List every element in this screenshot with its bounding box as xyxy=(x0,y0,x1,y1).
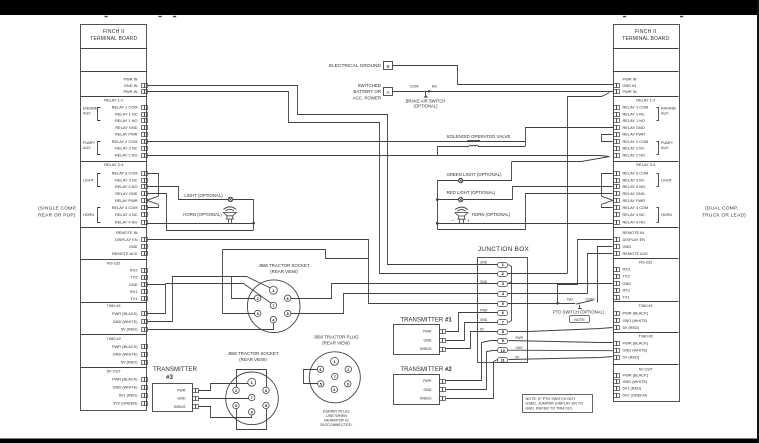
svg-text:REAR OR PUP): REAR OR PUP) xyxy=(38,213,76,219)
svg-text:LIGHT: LIGHT xyxy=(83,178,95,182)
svg-text:RX1: RX1 xyxy=(130,289,138,294)
svg-text:DISPLAY EN: DISPLAY EN xyxy=(115,237,138,242)
svg-text:RELAY 1 NO: RELAY 1 NO xyxy=(115,118,138,123)
svg-text:PWR (BLACK): PWR (BLACK) xyxy=(112,344,138,349)
svg-text:T080 #1: T080 #1 xyxy=(639,303,653,308)
svg-text:RELAY 3 NC: RELAY 3 NC xyxy=(623,177,646,182)
svg-text:GND (WHITE): GND (WHITE) xyxy=(113,319,139,324)
svg-text:GND. REFER TO TRM 010.: GND. REFER TO TRM 010. xyxy=(526,406,573,410)
svg-text:6: 6 xyxy=(287,297,289,301)
svg-text:#3: #3 xyxy=(166,374,173,381)
svg-text:ELECTRICAL GROUND: ELECTRICAL GROUND xyxy=(329,63,382,69)
svg-text:5V (RED): 5V (RED) xyxy=(623,325,640,330)
svg-text:(REAR VIEW): (REAR VIEW) xyxy=(239,357,267,362)
svg-text:RELAY 2 NO: RELAY 2 NO xyxy=(115,152,138,157)
svg-text:−: − xyxy=(452,218,455,223)
svg-text:REMOTE IN: REMOTE IN xyxy=(623,230,645,235)
svg-text:TERMINAL BOARD: TERMINAL BOARD xyxy=(90,36,137,42)
svg-text:#1: #1 xyxy=(445,318,452,324)
svg-text:GREEN LIGHT (OPTIONAL): GREEN LIGHT (OPTIONAL) xyxy=(447,172,502,177)
svg-text:9: 9 xyxy=(502,339,504,343)
svg-text:DISCONNECTED.: DISCONNECTED. xyxy=(320,422,352,427)
svg-text:TRANSMITTER: TRANSMITTER xyxy=(153,366,198,373)
svg-text:7: 7 xyxy=(251,396,253,400)
svg-text:PWR: PWR xyxy=(423,379,432,383)
svg-text:NC: NC xyxy=(432,85,438,89)
svg-text:PUMP/: PUMP/ xyxy=(661,141,674,145)
svg-text:SOLENOID OPERATED VALVE: SOLENOID OPERATED VALVE xyxy=(446,134,510,139)
svg-text:RS-232: RS-232 xyxy=(107,260,120,265)
svg-text:PWR: PWR xyxy=(516,336,524,340)
svg-text:GND (WHITE): GND (WHITE) xyxy=(623,379,649,384)
svg-text:RELAY 1 NO: RELAY 1 NO xyxy=(623,118,646,123)
svg-text:GND: GND xyxy=(129,244,138,249)
svg-text:HORN (OPTIONAL): HORN (OPTIONAL) xyxy=(472,212,511,217)
svg-text:GND: GND xyxy=(623,244,632,249)
svg-text:10: 10 xyxy=(501,349,505,353)
svg-text:5: 5 xyxy=(320,383,322,387)
svg-text:RELAY 3-4: RELAY 3-4 xyxy=(104,162,124,167)
svg-text:RELAY 4 NO: RELAY 4 NO xyxy=(623,220,646,225)
svg-text:RELAY 2 COM: RELAY 2 COM xyxy=(623,139,649,144)
svg-text:PWR IN: PWR IN xyxy=(623,89,637,94)
svg-text:RELAY 1 NC: RELAY 1 NC xyxy=(115,111,138,116)
svg-text:PWR IN: PWR IN xyxy=(123,89,137,94)
svg-text:RELAY PWR: RELAY PWR xyxy=(623,198,646,203)
svg-text:AUX: AUX xyxy=(83,146,91,150)
svg-text:5: 5 xyxy=(502,302,504,306)
svg-text:FINCH II: FINCH II xyxy=(103,29,125,35)
svg-text:1: 1 xyxy=(502,263,504,267)
svg-text:5V (RED): 5V (RED) xyxy=(121,327,138,332)
svg-text:5V1 (RED): 5V1 (RED) xyxy=(623,386,643,391)
svg-text:(DUAL COMP,: (DUAL COMP, xyxy=(705,206,738,212)
svg-text:HORN: HORN xyxy=(661,213,672,217)
svg-text:RELAY 3 COM: RELAY 3 COM xyxy=(112,171,138,176)
svg-text:GND: GND xyxy=(480,280,488,284)
svg-text:6: 6 xyxy=(319,368,321,372)
svg-text:(SINGLE COMP,: (SINGLE COMP, xyxy=(38,206,77,212)
svg-text:T080 #2: T080 #2 xyxy=(639,333,653,338)
svg-text:5V (RED): 5V (RED) xyxy=(623,354,640,359)
svg-text:RELAY 3-4: RELAY 3-4 xyxy=(636,162,656,167)
svg-text:TX1: TX1 xyxy=(623,295,630,300)
svg-text:RELAY GND: RELAY GND xyxy=(115,125,137,130)
svg-text:RELAY 2 NO: RELAY 2 NO xyxy=(623,152,646,157)
svg-text:ENGINE/: ENGINE/ xyxy=(661,107,677,111)
svg-text:RELAY GND: RELAY GND xyxy=(623,125,645,130)
svg-text:NOTE: IF PTO SWITCH NOT: NOTE: IF PTO SWITCH NOT xyxy=(526,397,577,401)
svg-text:RELAY 3 NO: RELAY 3 NO xyxy=(115,184,138,189)
svg-text:PWR (BLACK): PWR (BLACK) xyxy=(623,340,649,345)
svg-text:PTO SWITCH (OPTIONAL): PTO SWITCH (OPTIONAL) xyxy=(553,310,605,315)
svg-text:5V2 (GREEN): 5V2 (GREEN) xyxy=(623,392,648,397)
svg-text:REMOTE IN: REMOTE IN xyxy=(116,230,138,235)
svg-text:3: 3 xyxy=(502,282,504,286)
svg-text:RELAY 1 NC: RELAY 1 NC xyxy=(623,111,646,116)
svg-text:JUNCTION BOX: JUNCTION BOX xyxy=(478,246,530,253)
svg-text:(REAR VIEW): (REAR VIEW) xyxy=(322,340,350,345)
svg-text:RELAY 2 NC: RELAY 2 NC xyxy=(623,146,646,151)
svg-text:GND (WHITE): GND (WHITE) xyxy=(623,318,649,323)
svg-text:PWR (BLACK): PWR (BLACK) xyxy=(623,311,649,316)
svg-text:PWR (BLACK): PWR (BLACK) xyxy=(112,377,138,382)
svg-text:5V2 (GREEN): 5V2 (GREEN) xyxy=(113,401,138,406)
svg-text:RELAY 3 COM: RELAY 3 COM xyxy=(623,171,649,176)
svg-text:HORN (OPTIONAL): HORN (OPTIONAL) xyxy=(183,212,222,217)
svg-text:J560 TRACTOR SOCKET: J560 TRACTOR SOCKET xyxy=(227,351,278,356)
svg-text:GND: GND xyxy=(424,338,432,342)
svg-text:BATTERY OR: BATTERY OR xyxy=(353,89,381,94)
svg-text:LIGHT (OPTIONAL): LIGHT (OPTIONAL) xyxy=(184,193,223,198)
svg-text:RX2: RX2 xyxy=(623,267,631,272)
svg-text:5VBUS: 5VBUS xyxy=(420,397,432,401)
svg-text:RX2: RX2 xyxy=(130,268,138,273)
svg-text:RELAY 2 NC: RELAY 2 NC xyxy=(115,146,138,151)
svg-text:B: B xyxy=(386,64,389,69)
svg-text:5VBUS: 5VBUS xyxy=(174,405,186,409)
svg-text:5VBUS: 5VBUS xyxy=(420,347,432,351)
svg-text:TX1: TX1 xyxy=(130,296,137,301)
svg-text:COM: COM xyxy=(410,85,419,89)
svg-text:2: 2 xyxy=(347,368,349,372)
svg-text:5V OUT: 5V OUT xyxy=(107,369,122,374)
svg-text:REMOTE ACK: REMOTE ACK xyxy=(112,251,138,256)
svg-text:J560 TRACTOR PLUG: J560 TRACTOR PLUG xyxy=(314,334,360,339)
svg-text:2: 2 xyxy=(257,297,259,301)
svg-text:GND (WHITE): GND (WHITE) xyxy=(113,352,139,357)
svg-text:PUMP/: PUMP/ xyxy=(83,141,96,145)
svg-text:ACC. POWER: ACC. POWER xyxy=(353,95,381,100)
svg-text:RS-232: RS-232 xyxy=(639,259,652,264)
svg-text:GND: GND xyxy=(424,388,432,392)
svg-text:AUX: AUX xyxy=(661,146,669,150)
svg-text:GND: GND xyxy=(623,281,632,286)
svg-text:5: 5 xyxy=(287,312,289,316)
svg-text:RELAY 1-2: RELAY 1-2 xyxy=(104,97,123,102)
svg-text:7: 7 xyxy=(502,321,504,325)
svg-text:RELAY 4 NC: RELAY 4 NC xyxy=(115,212,138,217)
svg-text:(OPTIONAL): (OPTIONAL) xyxy=(414,103,439,108)
svg-text:GND: GND xyxy=(516,346,524,350)
svg-text:RX1: RX1 xyxy=(623,288,631,293)
svg-text:TX2: TX2 xyxy=(130,275,137,280)
svg-text:RELAY 3 NO: RELAY 3 NO xyxy=(623,184,646,189)
svg-text:T080 #1: T080 #1 xyxy=(107,303,121,308)
svg-text:#2: #2 xyxy=(445,367,452,373)
svg-text:+: + xyxy=(467,218,470,223)
svg-text:PWR: PWR xyxy=(423,330,432,334)
svg-text:ENGINE/: ENGINE/ xyxy=(83,107,99,111)
svg-text:GND (WHITE): GND (WHITE) xyxy=(623,347,649,352)
svg-text:GND IN: GND IN xyxy=(623,83,637,88)
svg-text:7: 7 xyxy=(334,375,336,379)
svg-text:8: 8 xyxy=(502,330,504,334)
svg-text:RED LIGHT (OPTIONAL): RED LIGHT (OPTIONAL) xyxy=(447,190,496,195)
svg-text:PWR IN: PWR IN xyxy=(123,77,137,82)
svg-text:RELAY 1 COM: RELAY 1 COM xyxy=(112,105,138,110)
svg-text:GND: GND xyxy=(480,318,488,322)
svg-text:5V (RED): 5V (RED) xyxy=(121,359,138,364)
svg-text:5V OUT: 5V OUT xyxy=(639,366,654,371)
svg-text:RELAY 4 NC: RELAY 4 NC xyxy=(623,212,646,217)
svg-text:3: 3 xyxy=(235,404,237,408)
svg-text:11: 11 xyxy=(501,358,505,362)
svg-text:2: 2 xyxy=(502,272,504,276)
svg-text:7: 7 xyxy=(272,304,274,308)
svg-text:SWITCHED: SWITCHED xyxy=(358,83,381,88)
svg-text:USED, JUMPER DISPLAY EN TO: USED, JUMPER DISPLAY EN TO xyxy=(526,402,584,406)
svg-text:PWR: PWR xyxy=(177,388,186,392)
svg-text:REMOTE ACK: REMOTE ACK xyxy=(623,251,649,256)
svg-text:NO: NO xyxy=(567,296,573,301)
svg-text:RELAY PWR: RELAY PWR xyxy=(623,132,646,137)
svg-text:RELAY 3 NC: RELAY 3 NC xyxy=(115,177,138,182)
svg-text:NOTE: NOTE xyxy=(574,318,585,322)
svg-text:GND IN: GND IN xyxy=(124,83,138,88)
svg-text:GND (WHITE): GND (WHITE) xyxy=(113,385,139,390)
svg-text:RELAY 4 NO: RELAY 4 NO xyxy=(115,220,138,225)
svg-text:RELAY 4 COM: RELAY 4 COM xyxy=(112,205,138,210)
svg-text:TRANSMITTER: TRANSMITTER xyxy=(401,318,444,324)
svg-text:T080 #2: T080 #2 xyxy=(107,336,121,341)
svg-text:6: 6 xyxy=(265,389,267,393)
svg-text:2: 2 xyxy=(235,389,237,393)
svg-text:PWR: PWR xyxy=(480,309,488,313)
svg-text:3: 3 xyxy=(257,312,259,316)
svg-text:6: 6 xyxy=(502,311,504,315)
svg-text:PWR (BLACK): PWR (BLACK) xyxy=(623,372,649,377)
svg-text:TX2: TX2 xyxy=(623,274,630,279)
svg-text:RELAY 4 COM: RELAY 4 COM xyxy=(623,205,649,210)
svg-text:RELAY 1-2: RELAY 1-2 xyxy=(636,97,655,102)
svg-text:PWR (BLACK): PWR (BLACK) xyxy=(112,311,138,316)
svg-text:AUX: AUX xyxy=(661,111,669,115)
svg-text:PWR IN: PWR IN xyxy=(623,77,637,82)
svg-text:TRANSMITTER: TRANSMITTER xyxy=(401,367,444,373)
svg-text:(REAR VIEW): (REAR VIEW) xyxy=(270,269,298,274)
svg-text:GND: GND xyxy=(178,397,186,401)
svg-text:GND: GND xyxy=(480,261,488,265)
svg-text:GND: GND xyxy=(129,282,138,287)
svg-text:AUX: AUX xyxy=(83,111,91,115)
svg-text:DISPLAY EN: DISPLAY EN xyxy=(623,237,646,242)
svg-text:RELAY GND: RELAY GND xyxy=(623,191,645,196)
svg-text:LIGHT: LIGHT xyxy=(661,178,673,182)
svg-text:FINCH II: FINCH II xyxy=(635,29,657,35)
svg-text:3: 3 xyxy=(347,383,349,387)
svg-text:J560 TRACTOR SOCKET: J560 TRACTOR SOCKET xyxy=(258,263,309,268)
svg-text:TRUCK OR LEAD): TRUCK OR LEAD) xyxy=(702,213,746,219)
svg-text:5: 5 xyxy=(265,404,267,408)
svg-text:RELAY PWR: RELAY PWR xyxy=(115,198,138,203)
svg-text:TERMINAL BOARD: TERMINAL BOARD xyxy=(622,36,669,42)
svg-text:HORN: HORN xyxy=(83,213,94,217)
svg-text:RELAY 1 COM: RELAY 1 COM xyxy=(623,105,649,110)
svg-text:RELAY PWR: RELAY PWR xyxy=(115,132,138,137)
svg-text:5V1 (RED): 5V1 (RED) xyxy=(119,393,139,398)
svg-text:RELAY 2 COM: RELAY 2 COM xyxy=(112,139,138,144)
svg-text:RELAY GND: RELAY GND xyxy=(115,191,137,196)
